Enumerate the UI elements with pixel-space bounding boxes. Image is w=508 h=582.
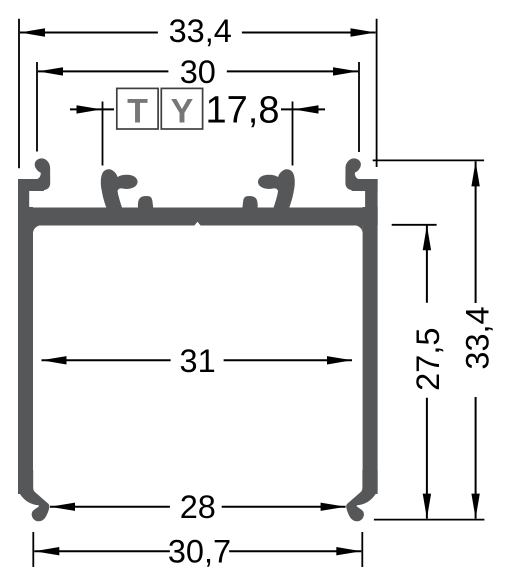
right top hook (mirror) <box>345 158 360 190</box>
dimension texts <box>168 13 496 570</box>
arrow 17,8 right (points left) <box>294 105 319 113</box>
ext line 33,4 top right <box>376 19 378 167</box>
arrow 30 right <box>333 67 358 75</box>
dim line 17,8 <box>70 108 114 110</box>
right wall upper block <box>365 179 378 225</box>
cavity fillet left <box>33 225 41 233</box>
ext line 30,7 left <box>32 532 34 567</box>
arrow 27,5 down <box>423 494 431 519</box>
left top hook <box>35 158 50 190</box>
dim line 28 <box>50 506 170 508</box>
svg-text:31: 31 <box>180 343 216 379</box>
svg-text:28: 28 <box>180 489 216 525</box>
arrow 33,4 left <box>20 28 45 36</box>
ext line 30 right <box>358 62 360 152</box>
left wall upper (slot region) <box>18 179 29 225</box>
left foot <box>18 470 49 521</box>
dim line 33,4 top <box>20 32 158 34</box>
svg-text:33,4: 33,4 <box>169 13 232 49</box>
arrow 33,4 vert down <box>471 494 479 519</box>
gasket clip 2 (mirror) <box>258 169 295 207</box>
ext line top right horizontal <box>373 159 484 161</box>
dim line 33,4 vertical <box>475 161 477 303</box>
svg-text:33,4: 33,4 <box>460 306 496 369</box>
ext line bottom right horizontal <box>374 519 485 521</box>
ext line 30,7 right <box>361 532 363 567</box>
ext line 30 left <box>36 62 38 152</box>
flange center V-notch <box>194 222 200 226</box>
right foot (mirror) <box>346 470 377 521</box>
left wall lower <box>18 207 33 494</box>
T box <box>117 88 158 129</box>
arrow 33,4 right <box>351 28 376 36</box>
profile cross-section body <box>18 158 378 521</box>
arrow 30,7 left <box>34 547 59 555</box>
left ledge <box>18 179 44 191</box>
arrow 28 right <box>321 503 346 511</box>
arrow 28 left <box>50 503 75 511</box>
right wall lower <box>363 207 378 494</box>
gasket clip 1 bump <box>138 196 153 208</box>
svg-text:T: T <box>127 92 148 130</box>
svg-text:30,7: 30,7 <box>168 533 231 569</box>
dim line 31 <box>42 359 171 361</box>
svg-text:Y: Y <box>171 92 194 130</box>
gasket clip 1 (head, wing, stem) <box>101 169 138 207</box>
right ledge <box>352 179 378 191</box>
gasket clip 2 bump (mirror) <box>242 196 257 208</box>
top flange <box>18 208 378 226</box>
ext line 27,5 upper <box>392 224 437 226</box>
svg-text:27,5: 27,5 <box>410 328 446 391</box>
arrow 31 right <box>327 356 352 364</box>
dim line 27,5 vertical <box>426 225 428 303</box>
dim line 30 <box>38 70 168 72</box>
arrow 31 left <box>42 356 67 364</box>
arrow 17,8 left (points right) <box>77 105 102 113</box>
ext line 17,8 left <box>102 102 104 166</box>
svg-text:30: 30 <box>180 54 216 90</box>
ext line 17,8 right <box>292 102 294 166</box>
Y box <box>161 88 202 129</box>
cavity fillet right <box>355 225 363 233</box>
dim line 30,7 <box>34 550 170 552</box>
ext line 33,4 top left <box>18 19 20 169</box>
arrow 33,4 vert up <box>471 161 479 186</box>
arrow 30 left <box>38 67 63 75</box>
arrow 30,7 right <box>336 547 361 555</box>
svg-text:17,8: 17,8 <box>206 90 280 132</box>
arrow 27,5 up <box>423 225 431 250</box>
